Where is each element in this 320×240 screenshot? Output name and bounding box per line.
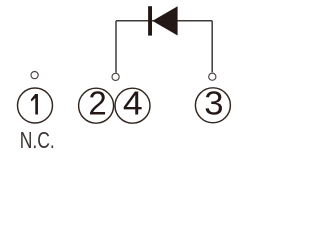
wire top horizontal <box>116 20 212 22</box>
pin 1 number <box>31 94 38 115</box>
wire left vertical <box>115 21 117 73</box>
svg-text:2: 2 <box>88 85 106 122</box>
svg-text:4: 4 <box>123 86 143 123</box>
pin 2 circle <box>79 88 114 123</box>
terminal small circle pins 2-4 <box>112 73 119 80</box>
wire right vertical <box>211 21 213 72</box>
pin 4 circle <box>115 88 150 123</box>
svg-text:N.C.: N.C. <box>20 127 55 153</box>
terminal small circle pin 1 <box>31 72 38 79</box>
diode triangle <box>152 6 177 35</box>
diode cathode bar <box>148 6 152 35</box>
svg-text:3: 3 <box>204 85 223 122</box>
pin 3 circle <box>195 88 230 123</box>
terminal small circle pin 3 <box>209 73 216 80</box>
pin 1 circle <box>18 88 53 123</box>
